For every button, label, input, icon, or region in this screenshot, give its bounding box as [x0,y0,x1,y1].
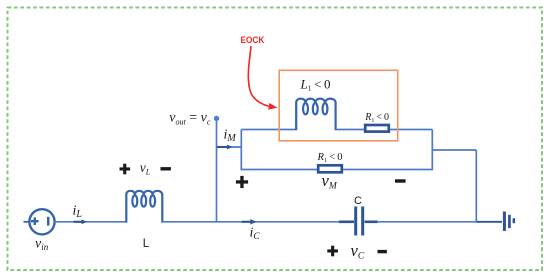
current arrow iM [217,146,228,148]
wire: left connector of parallel branch [240,130,242,171]
wire: right vertical down to bottom rail [475,150,477,222]
wire: capacitor to right junction [378,221,477,223]
wire: left stub to source [24,221,30,223]
wire: top branch right [390,129,432,131]
wire: top branch middle [336,129,364,131]
svg-text:L1 < 0: L1 < 0 [300,77,331,93]
wire: to ground branch horizontal [432,149,476,151]
polarity - for vC [378,250,387,253]
svg-text:C: C [354,195,362,207]
node dot v_out [214,116,219,121]
inductor L1 (negative) [296,99,335,130]
inductor L [126,191,162,222]
red callout arrow [248,46,268,106]
wire: right connector vertical [431,130,433,171]
resistor R1 (bottom) [318,165,342,172]
wire: inductor L to capacitor [162,221,342,223]
polarity + for vM [236,180,248,183]
voltage source Vin (circle with + and | ) [29,209,54,234]
svg-text:R1 < 0: R1 < 0 [364,112,389,124]
wire: output node vertical [216,118,218,222]
polarity - for vM [395,179,406,182]
capacitor C [339,207,378,236]
EOCK highlight box [279,70,398,141]
wire: source to inductor L [55,221,126,223]
ground symbol [503,212,515,232]
wire: to ground [476,221,502,223]
wire: bottom branch left [241,169,317,171]
svg-text:EOCK: EOCK [241,35,265,46]
wire: top branch left [241,129,296,131]
current arrow iL [74,221,83,223]
resistor R1 (top, inside EOCK box) [365,125,389,132]
svg-text:L: L [143,238,150,250]
wire: iM branch [217,146,242,148]
wire: bottom branch right [343,169,432,171]
svg-text:R1 < 0: R1 < 0 [317,152,343,164]
polarity - for vL [161,167,171,170]
polarity + for vC [327,249,338,252]
current arrow iC [242,221,252,223]
polarity + for vL [120,167,131,170]
